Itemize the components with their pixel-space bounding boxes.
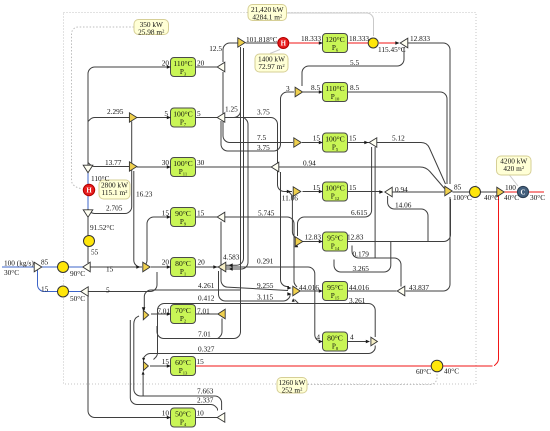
arrowhead into P95a mixer	[295, 243, 299, 247]
wire big mixer to 100C circle	[453, 191, 470, 193]
wire 7.663 from mixer P2	[134, 316, 222, 410]
svg-text:1.25: 1.25	[225, 105, 238, 114]
svg-text:50°C: 50°C	[70, 294, 85, 303]
svg-text:16.23: 16.23	[136, 190, 153, 199]
wire P3 output 20	[196, 66, 218, 68]
svg-text:40°C: 40°C	[484, 193, 499, 202]
svg-text:55: 55	[91, 248, 99, 257]
wire 13.77 into P11 mixer	[88, 163, 130, 167]
svg-text:80°C: 80°C	[175, 259, 191, 268]
junction circle 115C	[368, 38, 378, 48]
wire P2 output 7.01	[196, 313, 218, 315]
wire circle40 red right	[443, 365, 493, 367]
svg-text:110°C: 110°C	[325, 84, 344, 93]
wire 0.94 from P12 splitter to big mixer	[393, 191, 445, 193]
wire 0.179 to P95b splitter	[352, 246, 401, 287]
svg-text:120°C: 120°C	[325, 35, 345, 44]
wire 3.265 stub	[334, 242, 391, 273]
svg-text:3.75: 3.75	[257, 108, 270, 117]
svg-text:50°C: 50°C	[175, 409, 191, 418]
svg-text:20: 20	[197, 59, 205, 68]
label 1260 kW	[277, 378, 307, 395]
splitter after P7	[217, 113, 225, 122]
svg-text:12.83: 12.83	[347, 233, 364, 242]
svg-text:15: 15	[349, 183, 357, 192]
arrowhead into T12 a	[229, 263, 233, 267]
svg-text:60°C: 60°C	[175, 358, 191, 367]
svg-text:5.5: 5.5	[350, 58, 359, 67]
label 350 kW	[134, 20, 169, 37]
svg-text:5.12: 5.12	[392, 134, 405, 143]
svg-text:12.5: 12.5	[209, 44, 222, 53]
svg-text:14.06: 14.06	[395, 201, 412, 210]
svg-text:12.833: 12.833	[410, 34, 430, 43]
svg-text:4284.1 m2: 4284.1 m2	[252, 12, 283, 21]
svg-text:100°C: 100°C	[173, 109, 193, 118]
svg-text:0.94: 0.94	[303, 159, 316, 168]
wire branch 15 to P9	[143, 217, 171, 267]
heat exchanger P11	[171, 158, 196, 177]
arrowhead into P5 splitter	[364, 141, 368, 145]
svg-text:2.337: 2.337	[197, 396, 214, 405]
arrowhead into P15	[319, 289, 323, 293]
arrowhead into P3	[167, 65, 171, 69]
junction circle 91C	[84, 236, 95, 247]
wire red vertical right	[494, 196, 499, 366]
wire 50C circle to mixer	[69, 291, 82, 293]
splitter after P5	[369, 138, 377, 147]
arrowhead red into splitter	[395, 41, 399, 45]
svg-text:91.52°C: 91.52°C	[90, 223, 114, 232]
label 4200 kW	[497, 156, 532, 175]
svg-text:15: 15	[197, 357, 205, 366]
arrowhead into P11	[167, 165, 171, 169]
mixer before P11	[129, 162, 137, 171]
mixer before P10	[295, 87, 303, 97]
wire P7 output 5	[196, 117, 218, 119]
wire 43.837 to big mixer	[406, 197, 451, 291]
mixer after P4	[217, 413, 225, 422]
svg-text:420 m2: 420 m2	[503, 164, 524, 173]
wire P9 output 15	[196, 216, 218, 218]
wire 0.94 right from P11 splitter to big mixer	[279, 167, 445, 189]
svg-text:10: 10	[197, 409, 205, 418]
wire 3.75 and 3 into P10 mixer	[221, 92, 294, 151]
wire heater to P6 red	[290, 42, 323, 44]
splitter 100C right	[497, 187, 504, 197]
mixer before P95a	[295, 237, 303, 246]
svg-text:30°C: 30°C	[4, 268, 19, 277]
junction circle 40C	[431, 360, 443, 372]
arrowhead into P10	[319, 90, 323, 94]
arrowhead into P95b mixer b	[287, 292, 291, 296]
splitter after P95b	[397, 286, 405, 296]
svg-text:25.98 m2: 25.98 m2	[138, 27, 165, 36]
mixer after P2	[218, 309, 225, 319]
wire 5.12 to big mixer	[377, 143, 446, 185]
arrowhead into mixer P12	[287, 190, 291, 194]
heat exchanger P12	[323, 182, 348, 201]
svg-text:110°C: 110°C	[173, 59, 192, 68]
wire trunk down to P4 input	[88, 296, 171, 418]
wire 2.705 from trunk to P7 mixer	[88, 122, 132, 214]
svg-text:3.265: 3.265	[353, 264, 370, 273]
wire 2.295 into P7 mixer	[88, 118, 130, 122]
svg-text:12.83: 12.83	[305, 233, 322, 242]
mixer before P5	[294, 138, 301, 147]
wire P10 input	[303, 91, 323, 93]
wire 7.01 line	[157, 47, 241, 339]
wire P13 input	[150, 365, 171, 367]
heat exchanger P8	[323, 332, 348, 351]
svg-text:252 m2: 252 m2	[282, 385, 303, 394]
wire 4.583 up to mixer 101C	[226, 48, 244, 265]
splitter after P6 12.833	[400, 38, 408, 48]
wire spur 3.261 to P95b mixer	[295, 300, 299, 304]
svg-text:5: 5	[164, 109, 168, 118]
wire splitter to cooler red	[504, 191, 517, 193]
heat exchanger P4	[171, 408, 196, 427]
svg-text:3: 3	[286, 84, 290, 93]
wire P5 input	[302, 142, 323, 144]
arrowhead into P4	[167, 416, 171, 420]
wire 2.337	[130, 320, 217, 411]
svg-text:4.583: 4.583	[223, 253, 240, 262]
label 2800 kW	[99, 180, 130, 199]
svg-text:13.77: 13.77	[105, 158, 122, 167]
stream inlet arrow	[34, 262, 42, 272]
junction circle 90C	[58, 262, 69, 273]
wire 7.5 branch down to P5 mixer	[223, 72, 293, 143]
wire 5 from 50C to mixer P1	[88, 272, 157, 292]
svg-text:101.818°C: 101.818°C	[246, 35, 278, 44]
mixer before heater H1	[238, 38, 245, 47]
mixer before P13	[143, 362, 148, 371]
svg-text:11.06: 11.06	[282, 194, 298, 203]
wire P95b input	[301, 290, 323, 292]
mixer 50C	[81, 287, 88, 296]
wire P10 output 8.5 to big mixer	[348, 92, 448, 184]
wire P95a output 12.83 to big mixer	[348, 199, 451, 242]
svg-text:20: 20	[162, 258, 170, 267]
connector label 21420kW to junction circle	[287, 13, 374, 36]
heat exchanger P3	[171, 58, 196, 77]
wire 12.5 branch up to mixer	[223, 43, 238, 62]
svg-text:15: 15	[162, 209, 170, 218]
wire P7 input	[137, 117, 171, 119]
wire P95a input	[303, 241, 323, 243]
mixer before P7	[129, 113, 137, 122]
arrowhead into P2	[167, 312, 171, 316]
heat exchanger P2	[171, 305, 196, 324]
wire circle to splitter red	[379, 42, 399, 44]
svg-text:85: 85	[454, 183, 462, 192]
wire 9.88 down 6.615 loop to P95a mixer	[298, 147, 372, 236]
wire 0.412 3.261 line into P8 mixer	[154, 304, 376, 360]
arrowhead into T12 b	[229, 267, 233, 271]
svg-text:7.01: 7.01	[157, 307, 170, 316]
svg-text:20: 20	[198, 258, 206, 267]
svg-text:90°C: 90°C	[175, 209, 191, 218]
arrowhead into mixer P2 top	[142, 307, 146, 311]
arrowhead into P8	[319, 340, 323, 344]
svg-text:2.705: 2.705	[106, 204, 123, 213]
svg-text:100: 100	[505, 183, 516, 192]
arrowhead into P5	[319, 141, 323, 145]
arrowhead into P14	[319, 240, 323, 244]
wire P11 input	[137, 166, 171, 168]
svg-text:3.261: 3.261	[349, 296, 366, 305]
svg-text:110°C: 110°C	[91, 174, 110, 183]
splitter after P11	[271, 162, 279, 172]
svg-text:15: 15	[106, 265, 114, 274]
heat exchanger P7	[171, 108, 196, 127]
svg-text:15: 15	[197, 209, 205, 218]
heat exchanger P10	[323, 83, 348, 102]
heater H2	[83, 184, 94, 195]
svg-text:8.5: 8.5	[350, 83, 359, 92]
wire P2 input	[151, 313, 171, 315]
wire mixer to heater 101.818C	[246, 42, 278, 44]
mixer before P2	[143, 310, 148, 320]
svg-text:40°C: 40°C	[444, 367, 459, 376]
svg-text:H: H	[86, 188, 92, 195]
wire trunk 90C up to P3 input	[88, 67, 171, 263]
splitter trunk 13.77	[83, 165, 93, 173]
arrowhead into P6	[319, 41, 323, 45]
svg-text:30°C: 30°C	[530, 193, 545, 202]
svg-text:7.01: 7.01	[197, 307, 210, 316]
mixer before P95b	[293, 286, 300, 296]
big mixer 85	[445, 186, 452, 196]
heat exchanger P13	[171, 357, 196, 376]
arrowhead into P95b mixer a	[287, 286, 291, 290]
junction circle 100C	[470, 187, 481, 198]
wire P1 output through to P8 input	[196, 267, 323, 342]
svg-text:30: 30	[197, 158, 205, 167]
svg-text:0.94: 0.94	[395, 185, 408, 194]
wire 12.833 down right trunk	[408, 43, 450, 184]
arrowhead into P13 mixer top	[142, 358, 145, 362]
heat exchanger P15	[323, 282, 348, 301]
svg-text:15: 15	[41, 285, 49, 294]
svg-text:44.016: 44.016	[299, 283, 319, 292]
svg-text:15: 15	[313, 134, 321, 143]
splitter trunk 2.705	[83, 210, 93, 217]
wire 0.327 line from P8 mixer	[144, 346, 376, 360]
svg-text:3.115: 3.115	[257, 293, 273, 302]
wire 14.06 loop	[388, 196, 428, 242]
svg-text:15: 15	[349, 134, 357, 143]
svg-text:80°C: 80°C	[327, 333, 343, 342]
wire P11 output 30	[196, 166, 272, 168]
svg-text:6.615: 6.615	[351, 208, 368, 217]
wire 7.01 lower from T15	[216, 319, 222, 339]
heat exchanger P1	[171, 258, 196, 277]
mixer T12 after P1	[218, 262, 226, 272]
svg-text:0.179: 0.179	[353, 250, 370, 259]
svg-text:8.5: 8.5	[311, 83, 320, 92]
svg-text:100°C: 100°C	[173, 159, 193, 168]
svg-text:100°C: 100°C	[325, 183, 345, 192]
wire 5.5 branch to P10 mixer	[302, 47, 404, 86]
cooler C1	[517, 186, 528, 197]
wire T12 output 3.115 to P95b mixer	[219, 271, 291, 301]
svg-text:70°C: 70°C	[175, 306, 191, 315]
heat exchanger P9	[171, 208, 196, 227]
connector label 350kW to heater H2	[72, 27, 135, 189]
svg-text:100°C: 100°C	[325, 134, 345, 143]
wire split vertical under P5 splitter	[374, 147, 376, 258]
svg-text:30: 30	[162, 158, 170, 167]
wire 1.25 up to mixer 101C	[225, 48, 241, 118]
wire P5 output 15	[348, 142, 370, 144]
svg-text:4.261: 4.261	[198, 281, 215, 290]
wire 11.06 down from P11 splitter to P95b mixer	[281, 172, 290, 287]
svg-text:2.295: 2.295	[107, 107, 124, 116]
wire 90C circle to mixer	[69, 266, 84, 268]
wire 5.745 to P95b mixer	[225, 217, 297, 287]
svg-text:0.412: 0.412	[198, 294, 215, 303]
heat exchanger P6	[323, 34, 348, 53]
svg-text:18.333: 18.333	[349, 34, 369, 43]
wire 16.23 vertical	[134, 171, 141, 267]
arrowhead into T12 apex	[213, 265, 217, 269]
wire P1 input	[151, 266, 171, 268]
arrowhead into P12	[319, 190, 323, 194]
wire trunk blue heated segment	[87, 173, 89, 209]
svg-text:100 (kg/s): 100 (kg/s)	[4, 259, 34, 268]
arrowhead into P1	[167, 265, 171, 269]
wire 9.255 to P95b mixer	[221, 222, 288, 291]
wire branch 15 down to 50C	[38, 270, 58, 292]
arrowhead into P13 mixer bottom	[142, 371, 145, 375]
svg-text:5.745: 5.745	[258, 209, 275, 218]
mixer after P8	[371, 337, 378, 346]
svg-text:115.1 m2: 115.1 m2	[102, 188, 129, 197]
junction circle 50C	[58, 286, 69, 297]
svg-text:100°C: 100°C	[453, 193, 472, 202]
wire branch line via x248	[226, 118, 248, 270]
svg-text:7.663: 7.663	[197, 387, 214, 396]
svg-text:85: 85	[41, 258, 49, 267]
svg-text:15: 15	[162, 357, 170, 366]
wire P4 output 10	[196, 417, 218, 419]
wire P8 output 4	[348, 341, 369, 343]
svg-text:43.837: 43.837	[409, 283, 429, 292]
svg-text:0.327: 0.327	[198, 345, 215, 354]
svg-text:10: 10	[162, 409, 170, 418]
svg-text:95°C: 95°C	[327, 233, 343, 242]
svg-text:9.255: 9.255	[257, 281, 274, 290]
wire 15 to mixer P1	[90, 266, 142, 268]
arrowhead into P9	[167, 215, 171, 219]
svg-text:3.75: 3.75	[257, 143, 270, 152]
svg-text:C: C	[521, 190, 526, 197]
connector label 4200kW to cooler C1	[509, 175, 518, 187]
svg-text:5: 5	[106, 286, 110, 295]
wire 3.75 upper right	[225, 118, 292, 192]
arrowhead spur into P95b mixer	[292, 298, 295, 302]
arrowhead into P7	[167, 116, 171, 120]
arrowhead into P12 splitter	[379, 190, 383, 194]
connector label 1400kW to heater H1	[270, 50, 280, 54]
arrowhead into P13	[167, 364, 171, 368]
wire 4.261 into mixer P2	[144, 290, 240, 310]
splitter after P3	[217, 62, 225, 72]
svg-text:40°C: 40°C	[504, 193, 519, 202]
splitter after P12	[385, 187, 392, 197]
svg-text:18.333: 18.333	[301, 34, 321, 43]
heat exchanger P5	[323, 133, 348, 152]
svg-text:44.016: 44.016	[349, 283, 369, 292]
wire P12 output 15	[348, 191, 383, 193]
mixer 90C	[83, 262, 90, 272]
svg-text:15: 15	[313, 183, 321, 192]
wire 100C circle to splitter	[481, 191, 497, 193]
label 1400 kW	[255, 54, 288, 72]
label 21420 kW	[248, 5, 287, 22]
wire cooler out red	[529, 191, 544, 193]
svg-text:5: 5	[197, 109, 201, 118]
svg-text:95°C: 95°C	[327, 283, 343, 292]
wire cold stream inlet 30C	[2, 266, 34, 268]
heater H1	[278, 38, 289, 49]
svg-text:7.5: 7.5	[257, 133, 266, 142]
heat exchanger P14	[323, 232, 348, 251]
wire P12 input	[303, 191, 323, 193]
wire into P13 mixer from below	[142, 374, 144, 396]
mixer before P12	[293, 187, 301, 196]
wire P6 to circle red	[348, 42, 369, 44]
mixer before P1	[143, 262, 150, 272]
svg-text:H: H	[281, 41, 287, 48]
svg-text:72.97 m2: 72.97 m2	[258, 62, 285, 71]
svg-text:60°C: 60°C	[416, 367, 431, 376]
svg-text:0.291: 0.291	[257, 257, 274, 266]
wire 30C to 90C circle	[42, 266, 58, 268]
svg-text:115.45°C: 115.45°C	[378, 45, 406, 54]
arrowhead into P8 mixer	[366, 340, 370, 344]
splitter after P9	[217, 212, 225, 222]
arrowhead into mixer P1	[136, 265, 140, 269]
svg-text:4: 4	[350, 333, 354, 342]
connector label 1260kW to junction circle 40C	[308, 372, 438, 385]
svg-text:20: 20	[162, 59, 170, 68]
wire P13 output red	[196, 365, 432, 367]
wire P95b output 44.016	[348, 290, 397, 292]
svg-text:7.01: 7.01	[198, 330, 211, 339]
svg-text:90°C: 90°C	[70, 269, 85, 278]
outer dotted frame	[64, 13, 477, 385]
wire branch to P95a mixer	[288, 192, 296, 239]
svg-text:4: 4	[316, 333, 320, 342]
